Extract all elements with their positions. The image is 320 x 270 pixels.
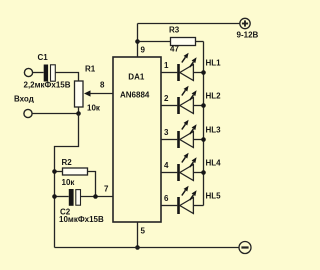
wire C2 right to pin 7 [81, 196, 113, 198]
wire C1-to-R1 top [55, 73, 78, 82]
wire wiper to pin 8 [90, 93, 113, 95]
wire R3 right to LED rail [196, 41, 204, 43]
LED HL2 [162, 86, 206, 114]
node junction R2/C2 right [93, 194, 98, 199]
svg-text:4: 4 [164, 161, 169, 170]
resistor R2 [63, 168, 88, 175]
LED HL4 [162, 153, 206, 181]
svg-text:1: 1 [164, 61, 169, 70]
wire R1 bottom [78, 107, 80, 114]
svg-text:47: 47 [170, 45, 179, 54]
svg-text:10мкФх15В: 10мкФх15В [59, 215, 104, 224]
resistor R3 [171, 38, 196, 46]
node junction C2 left [52, 194, 57, 199]
resistor R1 (potentiometer) [75, 81, 84, 107]
node junction R2 left [52, 169, 57, 174]
svg-text:HL5: HL5 [206, 192, 222, 201]
svg-text:R2: R2 [62, 158, 73, 167]
svg-text:2: 2 [164, 94, 169, 103]
wire to R3 left [138, 41, 171, 43]
node junction pin9 / R3 [135, 39, 140, 44]
svg-text:R1: R1 [85, 65, 96, 74]
svg-text:10к: 10к [87, 104, 101, 113]
svg-text:HL2: HL2 [206, 92, 222, 101]
svg-text:Вход: Вход [14, 95, 34, 104]
svg-text:HL4: HL4 [206, 159, 222, 168]
wire R2 right to pin7 net [88, 172, 96, 197]
node junction pin5 / bottom rail [135, 245, 140, 250]
wire pin 5 [137, 222, 139, 248]
svg-text:8: 8 [100, 81, 105, 90]
wire bottom negative rail [55, 247, 240, 249]
svg-text:3: 3 [164, 128, 169, 137]
LED HL5 [162, 186, 204, 214]
svg-text:C1: C1 [38, 53, 49, 62]
capacitor C2 [69, 189, 81, 206]
IC DA1 body [113, 57, 161, 222]
svg-text:2,2мкФх15В: 2,2мкФх15В [24, 81, 71, 90]
wire to R2 left [55, 171, 63, 173]
svg-text:R3: R3 [169, 26, 180, 35]
wire positive supply rail top [138, 23, 240, 25]
wiper arrow of R1 [84, 90, 91, 96]
svg-text:7: 7 [104, 185, 109, 194]
svg-text:AN6884: AN6884 [120, 91, 150, 100]
wire LED anode rail [203, 42, 205, 206]
input terminal upper [24, 68, 32, 76]
svg-text:HL1: HL1 [206, 59, 222, 68]
svg-text:9-12В: 9-12В [237, 31, 259, 40]
wire pin 9 [137, 24, 139, 58]
svg-text:9: 9 [141, 46, 146, 55]
svg-text:DA1: DA1 [128, 73, 145, 82]
node junction R1 bottom / input [76, 111, 81, 116]
wire input-to-C1 [33, 72, 44, 74]
LED HL3 [162, 120, 206, 148]
input terminal lower [24, 109, 32, 117]
wire jog down to left rail [55, 114, 79, 248]
negative supply terminal [239, 242, 251, 254]
svg-text:HL3: HL3 [206, 126, 222, 135]
wire to C2 left [55, 196, 69, 198]
svg-text:6: 6 [164, 194, 169, 203]
svg-text:5: 5 [141, 227, 146, 236]
LED HL1 [162, 53, 206, 81]
wire input lower [32, 113, 78, 115]
capacitor C1 [44, 65, 56, 82]
svg-text:10к: 10к [62, 178, 76, 187]
positive supply terminal [240, 18, 250, 28]
